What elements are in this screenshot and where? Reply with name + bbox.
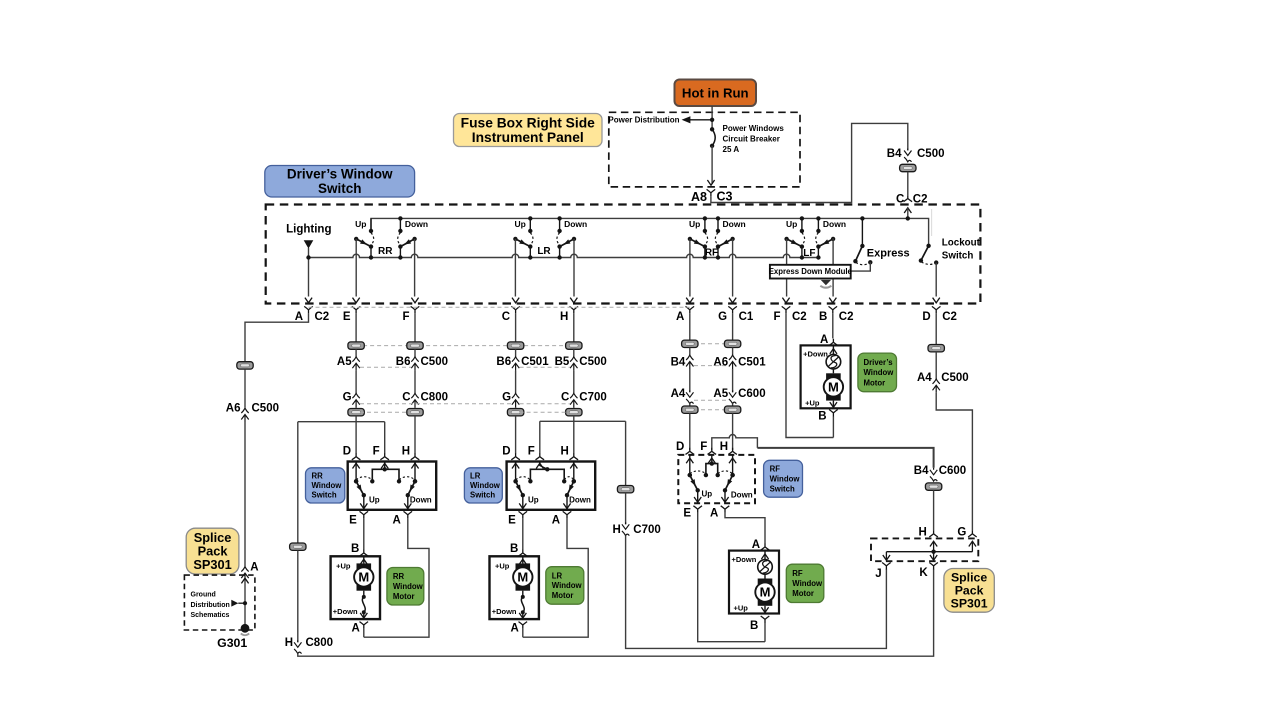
wire segment bbox=[732, 369, 734, 392]
wire LF up pivot through module to F-C2 bbox=[786, 239, 788, 297]
connector pin J splice pack bbox=[882, 563, 891, 570]
drivers window switch dashed boundary bbox=[266, 205, 981, 304]
svg-text:+Up: +Up bbox=[805, 398, 820, 407]
svg-text:B6: B6 bbox=[396, 356, 411, 368]
wire H lower segment bbox=[573, 407, 575, 408]
RR switch Down output bbox=[407, 495, 409, 510]
connector pin C C800 bbox=[411, 393, 418, 398]
connector pin F at switch box bbox=[411, 298, 418, 303]
connector pin H C800 bbox=[294, 640, 301, 647]
svg-text:SP301: SP301 bbox=[193, 557, 231, 572]
node top rail express bbox=[860, 216, 864, 220]
node top rail LF down bbox=[816, 216, 820, 220]
svg-text:C2: C2 bbox=[942, 311, 957, 323]
RR switch Up output bbox=[363, 495, 365, 510]
inline connector column E lower bbox=[348, 409, 364, 416]
svg-text:A: A bbox=[676, 311, 684, 323]
svg-text:Switch: Switch bbox=[318, 181, 362, 196]
connector pin A drivers motor bbox=[829, 339, 838, 346]
svg-text:D: D bbox=[502, 445, 510, 457]
connector pin B4 bbox=[686, 355, 693, 360]
RR motor breaker bbox=[363, 591, 365, 597]
svg-text:Splice: Splice bbox=[951, 571, 987, 585]
wire breaker to A8 bbox=[711, 146, 713, 184]
wire Express to module bbox=[851, 262, 871, 271]
wire C600 to splice pack H bbox=[933, 490, 935, 530]
switch RF Up contact arc bbox=[705, 233, 708, 245]
connector pin G bbox=[352, 393, 359, 398]
ground box entry arrow bbox=[241, 578, 248, 583]
svg-text:Window: Window bbox=[864, 368, 895, 377]
svg-text:+Down: +Down bbox=[492, 607, 517, 616]
svg-text:A: A bbox=[552, 514, 560, 526]
wire LF Down contact to bus bbox=[817, 247, 819, 258]
wire RF switch A to motor A bbox=[725, 513, 765, 544]
connector pin C C700 bbox=[570, 393, 577, 398]
wire to pin B5 bbox=[573, 349, 575, 357]
wire drivers motor B down bbox=[832, 417, 834, 438]
RF switch Up lever bbox=[690, 475, 698, 490]
RF switch Up output bbox=[697, 490, 699, 503]
svg-text:C500: C500 bbox=[421, 356, 449, 368]
connector pins E A below RF switch bbox=[693, 506, 702, 513]
inline connector C600 bbox=[925, 483, 941, 490]
svg-text:B: B bbox=[818, 411, 826, 423]
svg-text:RF: RF bbox=[705, 247, 718, 258]
connector pin A LR motor bbox=[519, 622, 528, 629]
switch Lockout contact arc bbox=[921, 262, 935, 265]
svg-text:C700: C700 bbox=[633, 524, 661, 536]
svg-text:E: E bbox=[683, 507, 691, 519]
svg-text:C501: C501 bbox=[738, 357, 766, 369]
wire to pin B6 bbox=[414, 349, 416, 357]
connector pin A C2 at switch box bbox=[305, 298, 312, 303]
connector pin A at switch box bbox=[686, 298, 693, 303]
wire LR down pivot to H bbox=[573, 239, 575, 297]
svg-text:C500: C500 bbox=[579, 356, 607, 368]
switch Express lever bbox=[855, 246, 862, 261]
svg-text:A8: A8 bbox=[691, 190, 707, 204]
wire E middle segment bbox=[355, 371, 357, 394]
svg-text:K: K bbox=[919, 567, 928, 579]
connector pins D F H RR switch bbox=[352, 453, 361, 460]
node top rail C2 feed bbox=[906, 216, 910, 220]
svg-text:+Up: +Up bbox=[495, 561, 510, 570]
RF window motor output wire bbox=[764, 606, 766, 614]
svg-text:C800: C800 bbox=[306, 637, 334, 649]
inline connector column G lower bbox=[724, 406, 740, 413]
switch LR Down stub bbox=[559, 218, 561, 231]
LR motor breaker bbox=[522, 591, 524, 597]
svg-text:H: H bbox=[612, 524, 620, 536]
faint line artifact bbox=[931, 209, 933, 236]
wire column C upper bbox=[515, 313, 517, 341]
svg-text:B4: B4 bbox=[914, 465, 929, 477]
wire D-C2 to A4 C500 bbox=[935, 313, 937, 344]
svg-text:Down: Down bbox=[405, 219, 428, 229]
wire RR switch A to motor A bbox=[364, 518, 429, 637]
svg-text:LR: LR bbox=[537, 246, 551, 257]
svg-text:D: D bbox=[343, 445, 351, 457]
svg-text:Lighting: Lighting bbox=[286, 223, 331, 235]
label box RF window motor bbox=[786, 564, 824, 602]
ground splice node G301 bbox=[241, 624, 250, 633]
node top rail RF down bbox=[716, 216, 720, 220]
wire RF Up contact to bus bbox=[704, 247, 706, 258]
label box Drivers Window Switch bbox=[265, 166, 415, 198]
wire RF Down contact to bus bbox=[717, 247, 719, 258]
LR switch Down lever bbox=[567, 481, 574, 495]
svg-text:LR: LR bbox=[552, 571, 563, 580]
connector pin E at switch box bbox=[353, 298, 360, 303]
svg-text:Up: Up bbox=[355, 219, 366, 229]
connector pin A RR motor bbox=[360, 622, 369, 629]
wire segment bbox=[689, 404, 691, 406]
RF switch D leg bbox=[689, 455, 691, 475]
switch LR Up lever bbox=[515, 239, 530, 247]
RF switch Down output bbox=[724, 490, 726, 503]
wire LR up pivot to C bbox=[514, 239, 516, 297]
svg-text:A: A bbox=[752, 539, 760, 551]
gray dash line connector row C500 bbox=[356, 345, 574, 347]
svg-text:F: F bbox=[700, 441, 707, 453]
svg-text:Motor: Motor bbox=[864, 378, 886, 387]
wire Hot in Run to breaker bbox=[711, 106, 713, 129]
wire A LR motor down bbox=[522, 629, 524, 638]
connector pin B LR motor bbox=[519, 550, 528, 557]
svg-text:25 A: 25 A bbox=[723, 145, 740, 154]
switch LF Down stub bbox=[817, 218, 819, 231]
wire common bus with hops bbox=[308, 254, 818, 257]
wire F middle segment bbox=[414, 371, 416, 394]
svg-text:+Down: +Down bbox=[803, 350, 828, 359]
svg-text:H: H bbox=[720, 441, 728, 453]
inline connector column G upper bbox=[724, 340, 740, 347]
label box LR Window Motor bbox=[546, 567, 584, 605]
label box RR Window Switch bbox=[306, 468, 345, 503]
inline connector C500 top right bbox=[900, 164, 916, 171]
LR motor output wire bbox=[522, 612, 524, 619]
svg-text:Fuse Box Right Side: Fuse Box Right Side bbox=[461, 115, 595, 130]
svg-text:Switch: Switch bbox=[770, 484, 795, 493]
inline connector column H lower bbox=[566, 409, 582, 416]
node top rail RF up bbox=[703, 216, 707, 220]
wire LF down pivot through module to B-C2 bbox=[832, 238, 834, 296]
circuit breaker Power Windows 25A bbox=[710, 127, 714, 131]
connector pin A5 bbox=[352, 357, 359, 362]
connector pin B4 C500 bbox=[904, 149, 911, 156]
label box Fuse Box Right Side Instrument Panel bbox=[454, 114, 603, 147]
RF switch Down lever bbox=[725, 475, 733, 490]
switch LF Up stub bbox=[801, 218, 803, 231]
svg-text:Window: Window bbox=[470, 481, 501, 490]
module down arrow marker bbox=[821, 280, 831, 285]
svg-text:LR: LR bbox=[470, 472, 481, 481]
svg-text:Express: Express bbox=[867, 247, 910, 259]
label box Splice Pack SP301 left bbox=[186, 528, 239, 574]
LR switch Up lever bbox=[516, 481, 523, 495]
wire B-C2 to drivers motor A bbox=[832, 313, 834, 338]
svg-text:G: G bbox=[343, 391, 352, 403]
wire Lockout to D-C2 bbox=[935, 263, 937, 297]
svg-text:Express Down Module: Express Down Module bbox=[769, 267, 853, 276]
connector pin H C700 bbox=[622, 522, 629, 529]
svg-text:M: M bbox=[517, 570, 528, 585]
svg-text:F: F bbox=[773, 311, 780, 323]
splice pack SP301 right dashed box bbox=[871, 538, 978, 561]
svg-text:M: M bbox=[358, 570, 369, 585]
svg-text:Down: Down bbox=[731, 490, 753, 499]
wire arrow to Power Distribution bbox=[690, 119, 713, 121]
wire C middle segment bbox=[515, 371, 517, 394]
svg-text:A5: A5 bbox=[337, 356, 352, 368]
svg-text:M: M bbox=[828, 380, 839, 395]
wire LR switch A to motor A bbox=[523, 518, 588, 637]
svg-text:Motor: Motor bbox=[393, 592, 415, 601]
svg-text:Driver’s Window: Driver’s Window bbox=[287, 167, 393, 182]
svg-text:E: E bbox=[508, 514, 516, 526]
svg-text:Up: Up bbox=[369, 495, 380, 504]
svg-text:A4: A4 bbox=[917, 372, 932, 384]
svg-text:C500: C500 bbox=[941, 372, 969, 384]
svg-text:Up: Up bbox=[528, 495, 539, 504]
switch LR Up contact arc bbox=[530, 233, 533, 245]
LR switch Down output bbox=[566, 495, 568, 510]
wire H C800 drop bbox=[290, 543, 306, 550]
connector pin H splice pack bbox=[929, 530, 938, 537]
ground distribution dashed box bbox=[184, 575, 255, 630]
svg-text:Down: Down bbox=[823, 219, 846, 229]
node top rail LR up bbox=[528, 216, 532, 220]
wire top supply rail bbox=[371, 218, 929, 245]
svg-text:C2: C2 bbox=[839, 311, 854, 323]
svg-text:F: F bbox=[402, 311, 409, 323]
wire A6 to splice pack A bbox=[244, 422, 246, 567]
svg-text:Lockout: Lockout bbox=[942, 238, 981, 249]
switch RR Down contact arc bbox=[398, 233, 401, 245]
switch LF Down contact arc bbox=[816, 233, 819, 245]
inline connector on D-C2 wire bbox=[928, 345, 944, 352]
switch RF Down lever bbox=[718, 239, 733, 247]
Driver's window motor box bbox=[801, 345, 851, 408]
RR switch contact arcs bbox=[356, 477, 372, 480]
connector pin B C2 at switch box bbox=[829, 298, 836, 303]
svg-text:D: D bbox=[922, 311, 930, 323]
svg-text:J: J bbox=[875, 568, 881, 580]
svg-text:Driver’s: Driver’s bbox=[864, 358, 894, 367]
wire RR Up contact to bus bbox=[370, 247, 372, 258]
RR window switch box bbox=[348, 462, 437, 510]
wire A8-C3 feed to B4-C500 bbox=[711, 123, 908, 202]
Driver's window motor breaker circle bbox=[826, 354, 841, 369]
wire segment bbox=[732, 404, 734, 406]
wire RF down pivot to G bbox=[732, 239, 734, 297]
svg-text:B4: B4 bbox=[671, 357, 686, 369]
connector pin A6 C500 bbox=[241, 408, 248, 413]
wire column F upper bbox=[414, 313, 416, 341]
svg-text:RF: RF bbox=[792, 569, 803, 578]
svg-text:A5: A5 bbox=[713, 388, 728, 400]
connector pin C C2 into switch bbox=[904, 195, 913, 202]
svg-text:Distribution: Distribution bbox=[191, 602, 230, 609]
connector pin A8 C3 bbox=[707, 189, 716, 196]
label box RF Window Switch bbox=[764, 460, 803, 497]
wire LR switch E to motor B bbox=[522, 518, 524, 549]
label box Driver's window motor bbox=[858, 353, 897, 392]
wire column E upper bbox=[355, 313, 357, 341]
svg-text:RR: RR bbox=[393, 572, 405, 581]
connector pin A5 C600 bbox=[729, 390, 736, 397]
svg-text:A: A bbox=[510, 622, 518, 634]
svg-text:Up: Up bbox=[786, 219, 797, 229]
switch LR Down contact arc bbox=[557, 233, 560, 245]
svg-text:A: A bbox=[710, 507, 718, 519]
switch Express contact arc bbox=[856, 262, 870, 264]
wire column G upper bbox=[732, 313, 734, 340]
RF window switch dashed box bbox=[678, 455, 755, 503]
connector pins E A below LR switch bbox=[519, 511, 528, 518]
switch Lockout lever bbox=[926, 244, 930, 248]
connector pin F C2 at switch box bbox=[782, 298, 789, 303]
wire RF motor B to switch E bbox=[698, 513, 765, 642]
RR motor input wire bbox=[363, 556, 365, 563]
wire H middle segment bbox=[573, 371, 575, 394]
svg-text:RR: RR bbox=[312, 472, 324, 481]
wire RR Down contact to bus bbox=[399, 247, 401, 258]
svg-text:+Down: +Down bbox=[333, 607, 358, 616]
svg-text:H: H bbox=[402, 445, 410, 457]
connector pin B6 C501 bbox=[512, 357, 519, 362]
inline connector column H upper bbox=[566, 342, 582, 349]
wire LR Up contact to bus bbox=[529, 247, 531, 258]
fuse box dashed boundary bbox=[609, 112, 800, 187]
svg-text:A4: A4 bbox=[671, 388, 686, 400]
svg-text:B4: B4 bbox=[887, 148, 902, 160]
svg-text:RF: RF bbox=[770, 465, 781, 474]
svg-text:Switch: Switch bbox=[470, 491, 495, 500]
inline connector column C upper bbox=[507, 342, 523, 349]
inline connector column F upper bbox=[407, 342, 423, 349]
RR switch H leg bbox=[414, 462, 416, 482]
wire C500 to C-C2 bbox=[907, 172, 909, 195]
svg-text:M: M bbox=[760, 585, 771, 600]
inline connector column A lower bbox=[682, 406, 698, 413]
gray harness dash line below switch box bbox=[309, 306, 690, 308]
svg-text:C2: C2 bbox=[792, 311, 807, 323]
switch RF Up stub bbox=[704, 218, 706, 231]
connector pin A6 C501 bbox=[729, 355, 736, 360]
node top rail RR down bbox=[398, 216, 402, 220]
RF switch F leg and staple bbox=[711, 455, 713, 464]
LR switch H leg bbox=[573, 462, 575, 482]
wire G column to RF switch H bbox=[732, 413, 734, 450]
connector pin A4 bbox=[686, 390, 693, 397]
connector pin C at switch box bbox=[512, 298, 519, 303]
wire LR Down contact to bus bbox=[559, 247, 561, 258]
wire A-C2 to splice pack SP301 bbox=[245, 313, 309, 361]
inline connector column F lower bbox=[407, 409, 423, 416]
svg-text:SP301: SP301 bbox=[951, 597, 988, 611]
label box Splice Pack SP301 right bbox=[944, 569, 994, 613]
connector pins D F H RF switch bbox=[686, 448, 695, 455]
label box Hot in Run bbox=[675, 80, 757, 107]
svg-text:Window: Window bbox=[792, 579, 823, 588]
svg-text:C600: C600 bbox=[738, 388, 766, 400]
wire ground bus C800 to splice K bbox=[298, 569, 934, 656]
svg-text:B6: B6 bbox=[496, 356, 511, 368]
wire column H upper bbox=[573, 313, 575, 341]
svg-text:A6: A6 bbox=[226, 402, 241, 414]
connector pin D C2 at switch box bbox=[933, 298, 940, 303]
wire H column split to LR switch bbox=[540, 416, 626, 486]
connector pin B RF motor bbox=[761, 616, 770, 623]
connector pin K splice pack bbox=[929, 563, 938, 570]
LR window switch box bbox=[507, 462, 596, 510]
svg-text:Hot in Run: Hot in Run bbox=[682, 85, 749, 100]
inline connector on C700 drop bbox=[617, 486, 633, 493]
switch RF Down contact arc bbox=[715, 233, 718, 245]
RR window motor box bbox=[331, 556, 380, 619]
RF window motor box bbox=[729, 551, 779, 614]
svg-text:A: A bbox=[351, 622, 359, 634]
node power distribution junction bbox=[710, 118, 714, 122]
svg-text:Pack: Pack bbox=[955, 584, 984, 598]
svg-text:C: C bbox=[561, 391, 569, 403]
label box RR Window Motor bbox=[387, 568, 424, 606]
wire C column to LR switch D bbox=[515, 416, 517, 454]
svg-text:Motor: Motor bbox=[552, 591, 574, 600]
svg-text:RR: RR bbox=[378, 246, 393, 257]
connector pin B drivers motor bbox=[829, 410, 838, 417]
switch LF Down lever bbox=[818, 239, 833, 247]
svg-text:Window: Window bbox=[393, 582, 424, 591]
switch RF Up lever bbox=[690, 239, 705, 247]
svg-text:E: E bbox=[343, 311, 351, 323]
svg-text:Up: Up bbox=[701, 490, 712, 499]
gray dash rows between pin pairs bbox=[360, 366, 411, 368]
LR switch D leg bbox=[515, 462, 517, 482]
switch LF Up lever bbox=[787, 239, 802, 247]
svg-text:H: H bbox=[560, 445, 568, 457]
wire F lower segment bbox=[414, 407, 416, 408]
svg-text:F: F bbox=[528, 445, 535, 457]
motor M LR bbox=[516, 563, 531, 569]
wire column A upper bbox=[689, 313, 691, 340]
wire A RR motor down bbox=[363, 629, 365, 638]
connector pin A4 C500 right bbox=[933, 379, 940, 384]
wire LF Up contact to bus bbox=[801, 247, 803, 258]
svg-text:A: A bbox=[392, 514, 400, 526]
wire segment bbox=[732, 348, 734, 356]
svg-text:Power Windows: Power Windows bbox=[723, 124, 785, 133]
switch LF Up contact arc bbox=[802, 233, 805, 245]
svg-text:E: E bbox=[349, 514, 357, 526]
label box LR Window Switch bbox=[464, 468, 502, 503]
wire A4 to splice pack G bbox=[936, 393, 972, 531]
svg-text:C3: C3 bbox=[717, 190, 733, 204]
wire segment bbox=[689, 369, 691, 392]
ground reference arrow bbox=[231, 600, 238, 607]
svg-text:C501: C501 bbox=[521, 356, 549, 368]
wire C700 to splice J bbox=[626, 536, 887, 649]
svg-text:A: A bbox=[250, 562, 258, 574]
RF switch H leg bbox=[732, 455, 734, 475]
gray dash rows RF pair bbox=[694, 343, 729, 345]
node top rail LF up bbox=[800, 216, 804, 220]
svg-text:H: H bbox=[285, 637, 293, 649]
svg-text:B: B bbox=[750, 620, 758, 632]
svg-text:Switch: Switch bbox=[942, 250, 974, 261]
